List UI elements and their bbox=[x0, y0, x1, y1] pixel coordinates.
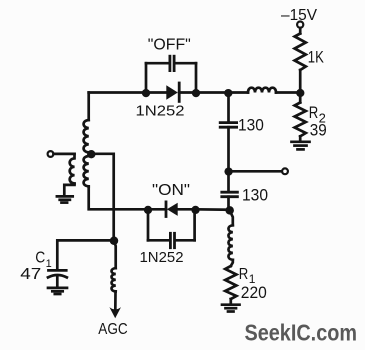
input terminal circle bbox=[48, 151, 54, 157]
wire node D to diode CR1 bbox=[146, 91, 166, 94]
label C1 bbox=[35, 250, 52, 270]
svg-text:1: 1 bbox=[46, 258, 52, 270]
wire C3 to node F bbox=[227, 127, 230, 171]
inductor L1 horizontal coil bbox=[248, 88, 276, 93]
wire node K to node G bbox=[196, 208, 230, 211]
wire node J to diode CR2 bbox=[148, 208, 166, 211]
node B junction bbox=[296, 89, 304, 97]
capacitor C3 130 bbox=[220, 123, 236, 128]
svg-text:130: 130 bbox=[242, 187, 268, 205]
ground under R2 bbox=[292, 142, 310, 150]
node E junction (OFF right) bbox=[192, 89, 200, 97]
wire node I to AGC coil bbox=[114, 241, 116, 268]
node H tap junction bbox=[87, 150, 95, 158]
OFF loop right riser bbox=[195, 63, 198, 92]
svg-text:SeekIC.com: SeekIC.com bbox=[245, 319, 358, 345]
wire node G down to RFC bbox=[230, 210, 233, 225]
capacitor C2 (OFF branch) bbox=[170, 56, 174, 70]
wire L2 to R1 bbox=[231, 260, 233, 266]
svg-text:220: 220 bbox=[241, 284, 267, 302]
svg-text:47: 47 bbox=[20, 266, 41, 283]
wire node B to R2 bbox=[299, 92, 302, 102]
wire node C down to C3 bbox=[227, 93, 230, 121]
node D junction (OFF left) bbox=[142, 89, 150, 97]
ON loop bottom wire left part bbox=[148, 239, 169, 242]
wire tap to AGC column bbox=[90, 154, 114, 241]
svg-text:"OFF": "OFF" bbox=[148, 36, 191, 53]
svg-text:39: 39 bbox=[310, 121, 327, 139]
ON loop right riser bbox=[193, 209, 196, 240]
svg-text:1K: 1K bbox=[308, 48, 325, 67]
OFF loop top wire right part bbox=[176, 62, 196, 65]
wire primary to ground bbox=[64, 184, 74, 196]
wire node F down to C4 bbox=[227, 171, 230, 190]
OFF loop top wire left part bbox=[146, 62, 168, 65]
svg-text:R: R bbox=[309, 103, 319, 122]
wire node I to C1 bbox=[57, 240, 113, 268]
wire C1 to ground bbox=[56, 277, 59, 288]
transformer T1 secondary upper winding bbox=[84, 120, 89, 154]
wire node F to output terminal bbox=[229, 170, 282, 173]
wire AGC arrow shaft bbox=[114, 291, 117, 312]
svg-text:R: R bbox=[239, 266, 249, 283]
transformer T1 primary winding bbox=[70, 154, 75, 184]
ground under R1 bbox=[222, 305, 240, 312]
node F junction bbox=[224, 167, 232, 175]
wire node E to node C bbox=[196, 91, 228, 94]
resistor 1K bbox=[295, 34, 306, 71]
node G junction bbox=[225, 206, 234, 215]
ON loop bottom wire right part bbox=[176, 239, 194, 242]
ground under C1 bbox=[48, 288, 67, 294]
node I junction (C1/AGC) bbox=[110, 237, 119, 246]
wire main line from transformer to OFF section bbox=[89, 91, 146, 94]
wire -15V terminal to 1K bbox=[299, 28, 302, 34]
node C junction bbox=[224, 89, 232, 97]
diode CR2 1N252 (ON) bbox=[166, 202, 178, 217]
capacitor C1 bbox=[48, 270, 67, 277]
resistor R1 bbox=[225, 266, 236, 299]
inductor L2 (R1 branch choke) bbox=[228, 225, 232, 259]
wire R2 to ground bbox=[299, 136, 302, 141]
wire L1 to node B bbox=[276, 91, 300, 94]
node K junction (ON right) bbox=[191, 206, 199, 214]
diode CR1 1N252 (OFF) bbox=[166, 83, 179, 101]
wire C4 to node G bbox=[227, 197, 230, 210]
OFF loop left riser bbox=[145, 63, 148, 92]
svg-text:C: C bbox=[35, 250, 45, 267]
label R1 bbox=[239, 266, 256, 286]
wire input terminal to primary bbox=[54, 153, 75, 156]
terminal circle -15V bbox=[297, 22, 303, 28]
AGC arrowhead bbox=[109, 307, 121, 318]
resistor R2 bbox=[295, 103, 306, 137]
ground under primary bbox=[57, 196, 73, 202]
capacitor C4 130 bbox=[222, 192, 238, 197]
wire node C to L1 bbox=[228, 91, 248, 94]
svg-text:"ON": "ON" bbox=[152, 182, 190, 199]
wire diode CR2 to node K bbox=[178, 208, 196, 211]
node J junction (ON left) bbox=[144, 206, 152, 214]
wire diode CR1 to node E bbox=[179, 91, 196, 94]
inductor L3 (AGC) bbox=[112, 268, 116, 291]
output terminal circle bbox=[282, 168, 288, 174]
svg-text:AGC: AGC bbox=[98, 321, 127, 338]
capacitor C5 (ON branch) bbox=[170, 233, 174, 247]
transformer T1 secondary lower winding bbox=[84, 154, 89, 187]
svg-text:1N252: 1N252 bbox=[140, 250, 184, 266]
wire secondary bottom to ON line bbox=[89, 187, 148, 210]
label R2 bbox=[309, 103, 326, 125]
ON loop left riser bbox=[147, 209, 150, 240]
svg-text:130: 130 bbox=[238, 117, 264, 135]
wire R1 to ground bbox=[229, 299, 232, 304]
wire 1K to node B bbox=[299, 70, 302, 92]
transformer T1 secondary top wire bbox=[87, 93, 90, 121]
svg-text:1N252: 1N252 bbox=[136, 104, 185, 120]
